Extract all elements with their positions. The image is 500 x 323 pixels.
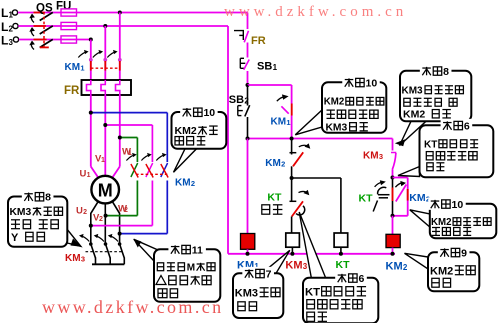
node junction L1 drop (118, 11, 122, 15)
svg-text:KT: KT (359, 193, 374, 205)
label KM1 aux (271, 117, 291, 128)
wire delta link U1-W2 blue (89, 111, 168, 236)
contactor KM1 main contacts (78, 50, 121, 71)
coil KM3 (286, 233, 300, 254)
label KT delayed NO (359, 193, 374, 205)
wire L2 control drop and bottom bus (228, 26, 395, 256)
wire KM1 coil branch (247, 139, 249, 234)
node junction SB2 top (246, 83, 250, 87)
wire control bus horizontal (246, 137, 393, 141)
svg-text:U: U (80, 169, 87, 180)
label duankai text (262, 205, 283, 214)
label V2 (93, 213, 103, 224)
svg-text:2: 2 (244, 97, 249, 106)
callout step9 KM2 coil on (405, 246, 480, 291)
svg-text:KM: KM (363, 151, 379, 162)
svg-text:KM: KM (271, 117, 287, 128)
callout step10 KM2 main closes (172, 106, 227, 173)
callout step6 KT NC opens (299, 212, 378, 323)
label KM3 coil (285, 259, 307, 271)
svg-text:9: 9 (461, 247, 467, 259)
svg-text:M: M (187, 262, 195, 273)
callout step7 KM3 coil off (233, 250, 290, 318)
svg-text:7: 7 (266, 268, 272, 280)
node junction KM2 coil top (391, 214, 395, 218)
callout step11 delta run (133, 239, 220, 302)
svg-text:KT: KT (267, 192, 282, 204)
contact KT delayed NO (373, 178, 392, 216)
svg-text:KM: KM (265, 158, 281, 169)
svg-text:2: 2 (191, 179, 195, 188)
svg-text:11: 11 (192, 244, 203, 256)
contact KM3 NC interlock (391, 153, 396, 178)
svg-text:1: 1 (87, 172, 91, 179)
svg-text:KM3: KM3 (235, 287, 258, 299)
thermal relay FR heater (82, 80, 132, 95)
label KM2 aux (409, 192, 430, 204)
contactor KM3 star contacts (79, 234, 124, 264)
svg-text:8: 8 (45, 192, 51, 204)
svg-text:KM: KM (285, 259, 302, 271)
node junction L3 drop (89, 38, 93, 42)
wire KM1 aux branch top (248, 85, 292, 104)
label KM2 interlock (265, 158, 285, 169)
label SB1 (257, 61, 278, 73)
svg-text:U: U (76, 206, 83, 217)
svg-text:KM: KM (175, 178, 191, 189)
svg-text:3: 3 (303, 262, 308, 271)
wire delta link V1-U2 magenta (89, 123, 153, 228)
svg-text:KM: KM (65, 62, 81, 73)
coil KM1 (241, 234, 255, 254)
label U1 (80, 169, 91, 180)
svg-text:KM2: KM2 (324, 97, 344, 108)
svg-text:2: 2 (403, 263, 408, 272)
node junction KT NO top (391, 176, 395, 180)
wire KT coil branch (292, 178, 341, 233)
svg-text:KM: KM (409, 192, 426, 204)
svg-text:KM3: KM3 (326, 122, 348, 133)
contact FR NC (234, 31, 249, 58)
svg-text:KM3: KM3 (402, 85, 424, 96)
callout step10 KM2 aux closes (410, 197, 497, 238)
svg-text:www.dzkfw.com.cn: www.dzkfw.com.cn (42, 297, 224, 317)
svg-text:10: 10 (203, 107, 215, 119)
svg-text:KT: KT (424, 139, 437, 150)
svg-text:KT: KT (305, 286, 320, 298)
wire L3 phase row (19, 39, 91, 41)
stop button SB1 (240, 58, 249, 85)
contact KM2 NC interlock (290, 139, 311, 179)
svg-text:Y: Y (11, 232, 19, 244)
coil KT (334, 233, 348, 254)
label W2 (118, 204, 128, 215)
svg-text:L: L (1, 34, 8, 48)
label FR heater (64, 85, 80, 97)
label V1 (95, 154, 105, 165)
svg-text:KM3: KM3 (10, 207, 32, 218)
svg-text:1: 1 (80, 64, 84, 73)
svg-text:L: L (1, 6, 8, 20)
callout step8 KM3 main opens (8, 190, 82, 247)
svg-text:2: 2 (99, 216, 103, 223)
wire motor bottom leads (91, 201, 120, 244)
node junction KT branch (290, 176, 294, 180)
watermark top (224, 4, 407, 20)
svg-text:KM2: KM2 (430, 265, 453, 277)
label FR contact (251, 35, 266, 47)
watermark bottom (42, 297, 224, 317)
motor M (91, 176, 119, 204)
svg-text:FR: FR (64, 85, 80, 97)
svg-text:8: 8 (443, 66, 449, 78)
callout step6 KT NO closes (398, 119, 493, 177)
callout step8 KM3 interlock closes (395, 64, 472, 146)
svg-text:SB: SB (257, 61, 272, 73)
wire L1 phase row (18, 12, 248, 14)
contact KM1 aux NO (277, 94, 292, 138)
node L2 terminal (1, 20, 18, 34)
svg-text:10: 10 (366, 77, 378, 89)
svg-text:2: 2 (281, 159, 285, 168)
start button SB2 (238, 85, 250, 139)
wire L2 phase row (18, 25, 228, 27)
svg-text:1: 1 (273, 63, 278, 72)
label KM1 main (65, 62, 85, 73)
fuse group FU (56, 1, 77, 44)
svg-text:6: 6 (464, 120, 470, 132)
svg-text:KM2: KM2 (403, 109, 425, 121)
contact KM2 aux NO self-hold (393, 178, 408, 216)
svg-text:M: M (98, 181, 113, 201)
callout step10 KM2 NC opens (295, 76, 386, 135)
label KM2 main (175, 178, 195, 189)
svg-text:KM2: KM2 (175, 125, 197, 137)
label KM2 coil (386, 261, 408, 273)
svg-text:www.dzkfw.com.cn: www.dzkfw.com.cn (224, 4, 407, 20)
svg-text:SB: SB (229, 94, 244, 106)
wire power drops to KM1 (91, 13, 120, 81)
svg-text:1: 1 (101, 157, 105, 164)
svg-text:1: 1 (286, 118, 290, 127)
svg-text:3: 3 (379, 152, 383, 161)
label KM1 coil (237, 260, 259, 272)
label KT coil (336, 259, 351, 271)
svg-text:KM2: KM2 (431, 217, 451, 228)
node L1 terminal (1, 6, 18, 20)
label W1 (122, 147, 132, 158)
label KT contact (267, 192, 282, 204)
svg-text:2: 2 (83, 209, 87, 216)
disconnect switch QS (29, 3, 53, 50)
wire FR to motor leads (91, 95, 120, 178)
contact KT delayed NC (290, 178, 310, 233)
svg-text:10: 10 (452, 199, 464, 211)
wire control L1 drop (247, 13, 249, 30)
label KM3 main (65, 253, 85, 264)
svg-text:KT: KT (336, 259, 351, 271)
label KM3 interlock (363, 151, 383, 162)
svg-text:FR: FR (251, 35, 266, 47)
wire KM2 coil branch drop (392, 139, 394, 151)
node junction L2 drop (103, 24, 107, 28)
label U2 (76, 206, 87, 217)
svg-text:KM: KM (65, 253, 81, 264)
svg-text:KM: KM (386, 261, 403, 273)
svg-text:6: 6 (358, 273, 364, 285)
label SB2 (229, 94, 250, 106)
svg-text:2: 2 (124, 207, 128, 214)
svg-text:3: 3 (81, 255, 85, 264)
contactor KM2 main contacts (126, 153, 168, 178)
wire delta link W1-V2 green (104, 136, 138, 218)
svg-text:L: L (1, 20, 8, 34)
coil KM2 (386, 216, 400, 254)
node L3 terminal (1, 34, 19, 48)
